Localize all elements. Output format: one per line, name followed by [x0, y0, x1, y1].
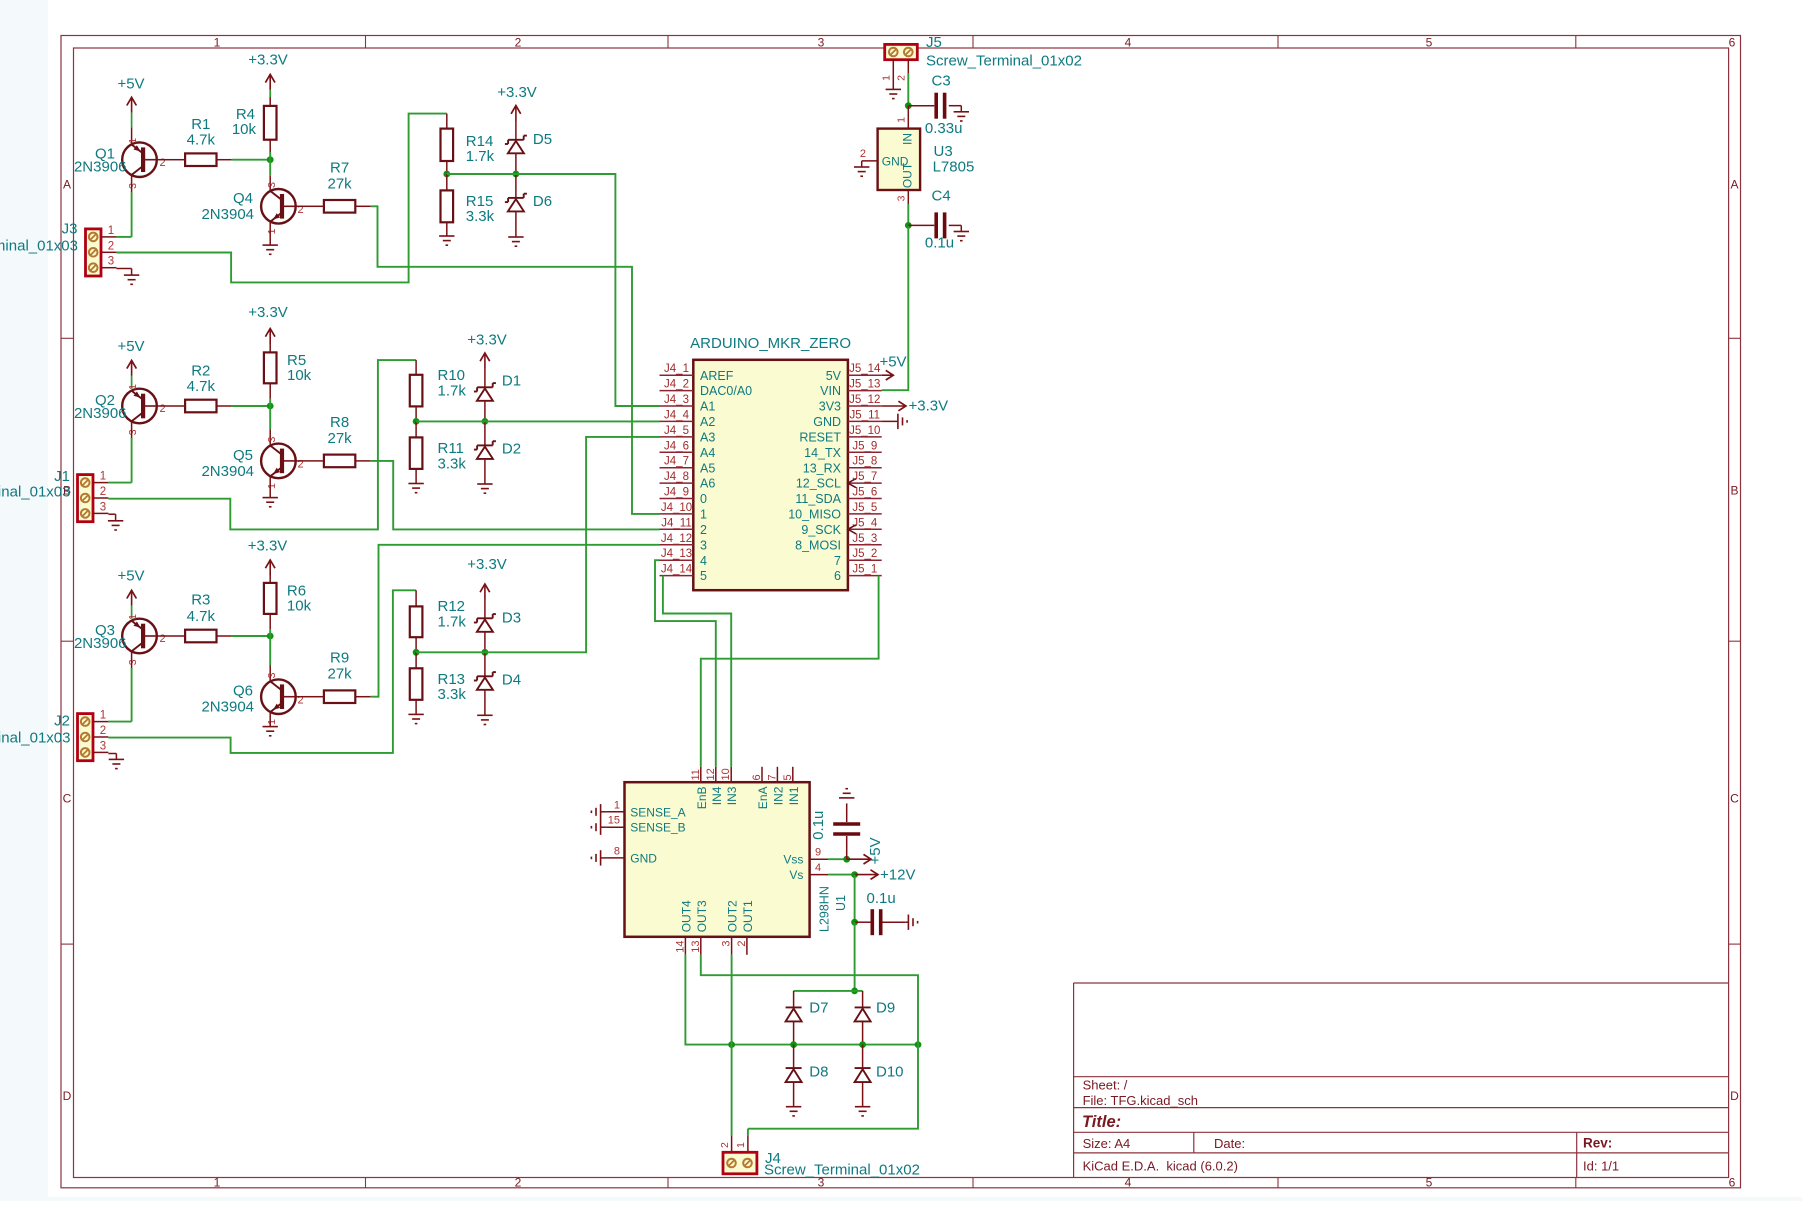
- svg-text:J5_14: J5_14: [849, 363, 881, 375]
- svg-text:3: 3: [818, 35, 825, 49]
- svg-text:R3: R3: [191, 592, 210, 609]
- svg-text:+3.3V: +3.3V: [467, 556, 507, 573]
- svg-text:GND: GND: [630, 851, 657, 865]
- svg-text:0.1u: 0.1u: [810, 811, 827, 840]
- svg-text:D7: D7: [809, 1000, 828, 1017]
- svg-text:3: 3: [266, 437, 278, 443]
- svg-text:OUT: OUT: [901, 162, 915, 188]
- svg-text:EnA: EnA: [756, 787, 770, 810]
- svg-text:C3: C3: [932, 73, 951, 90]
- svg-text:27k: 27k: [328, 666, 353, 683]
- svg-text:Q4: Q4: [233, 190, 253, 207]
- svg-text:Rev:: Rev:: [1583, 1136, 1612, 1151]
- svg-text:3V3: 3V3: [819, 400, 841, 414]
- svg-text:Title:: Title:: [1082, 1113, 1121, 1131]
- svg-text:3: 3: [896, 195, 908, 201]
- svg-text:R2: R2: [191, 362, 210, 379]
- svg-text:13: 13: [690, 941, 702, 953]
- svg-text:1: 1: [127, 614, 139, 620]
- svg-text:J5_11: J5_11: [850, 409, 880, 421]
- svg-text:+5V: +5V: [117, 338, 144, 355]
- svg-text:3: 3: [108, 256, 114, 268]
- svg-text:+3.3V: +3.3V: [909, 398, 949, 415]
- svg-text:3: 3: [266, 182, 278, 188]
- svg-text:2: 2: [515, 35, 522, 49]
- svg-text:VIN: VIN: [820, 384, 841, 398]
- svg-text:+3.3V: +3.3V: [248, 52, 288, 69]
- svg-text:J5_6: J5_6: [852, 487, 877, 499]
- svg-text:J5_12: J5_12: [849, 394, 880, 406]
- svg-text:DAC0/A0: DAC0/A0: [700, 384, 752, 398]
- svg-text:Screw_Terminal_01x03: Screw_Terminal_01x03: [0, 484, 71, 501]
- svg-text:1: 1: [614, 799, 620, 811]
- svg-text:7: 7: [834, 554, 841, 568]
- svg-text:2: 2: [100, 486, 106, 498]
- svg-text:J4_6: J4_6: [664, 440, 689, 452]
- svg-text:6: 6: [834, 569, 841, 583]
- svg-text:4: 4: [815, 862, 821, 874]
- svg-text:J4_3: J4_3: [664, 394, 689, 406]
- svg-text:J4_14: J4_14: [661, 564, 693, 576]
- svg-text:J4_11: J4_11: [661, 517, 691, 529]
- svg-text:6: 6: [1729, 1175, 1736, 1189]
- svg-text:1: 1: [214, 1175, 221, 1189]
- svg-text:J5_4: J5_4: [852, 517, 878, 529]
- svg-text:1: 1: [127, 384, 139, 390]
- svg-text:Sheet: /: Sheet: /: [1083, 1078, 1128, 1093]
- svg-text:27k: 27k: [328, 430, 353, 447]
- svg-text:OUT1: OUT1: [741, 900, 755, 932]
- svg-text:1.7k: 1.7k: [466, 148, 495, 165]
- svg-text:R9: R9: [330, 650, 349, 667]
- svg-text:Screw_Terminal_01x02: Screw_Terminal_01x02: [764, 1162, 920, 1179]
- svg-text:J5_13: J5_13: [849, 379, 880, 391]
- svg-text:+5V: +5V: [879, 354, 906, 371]
- svg-text:A2: A2: [700, 415, 715, 429]
- svg-text:RESET: RESET: [799, 431, 841, 445]
- svg-text:3.3k: 3.3k: [438, 686, 467, 703]
- svg-text:5V: 5V: [826, 369, 842, 383]
- svg-text:0: 0: [700, 492, 707, 506]
- svg-text:J4_5: J4_5: [664, 425, 689, 437]
- svg-text:D4: D4: [502, 672, 521, 689]
- svg-text:5: 5: [700, 569, 707, 583]
- svg-text:IN1: IN1: [787, 786, 801, 805]
- svg-text:27k: 27k: [328, 175, 353, 192]
- svg-text:2N3904: 2N3904: [201, 206, 254, 223]
- svg-text:SENSE_A: SENSE_A: [630, 805, 685, 819]
- svg-text:R1: R1: [191, 116, 210, 133]
- svg-text:D9: D9: [876, 1000, 895, 1017]
- svg-text:2: 2: [700, 523, 707, 537]
- svg-text:D6: D6: [533, 193, 552, 210]
- svg-text:SENSE_B: SENSE_B: [630, 821, 685, 835]
- svg-text:2: 2: [719, 1142, 731, 1148]
- svg-text:J4_1: J4_1: [664, 363, 689, 375]
- svg-text:3.3k: 3.3k: [438, 455, 467, 472]
- svg-text:1: 1: [100, 710, 106, 722]
- svg-text:+5V: +5V: [867, 837, 884, 864]
- svg-text:A3: A3: [700, 431, 715, 445]
- svg-text:14: 14: [674, 941, 686, 953]
- svg-text:0.1u: 0.1u: [925, 234, 954, 251]
- svg-text:5: 5: [1426, 35, 1433, 49]
- svg-text:Screw_Terminal_01x03: Screw_Terminal_01x03: [0, 729, 71, 746]
- svg-text:2N3906: 2N3906: [74, 405, 127, 422]
- svg-text:D2: D2: [502, 441, 521, 458]
- svg-text:+3.3V: +3.3V: [248, 304, 288, 321]
- svg-text:10k: 10k: [287, 597, 312, 614]
- svg-text:J1: J1: [54, 468, 70, 485]
- svg-text:D: D: [1730, 1089, 1739, 1103]
- svg-text:1: 1: [896, 117, 908, 123]
- svg-text:J4_10: J4_10: [661, 502, 692, 514]
- svg-text:9: 9: [815, 847, 821, 859]
- svg-text:IN3: IN3: [725, 786, 739, 805]
- svg-text:A: A: [1730, 178, 1738, 192]
- svg-text:12_SCL: 12_SCL: [796, 477, 841, 491]
- svg-text:Vs: Vs: [789, 868, 803, 882]
- svg-text:A4: A4: [700, 446, 715, 460]
- svg-text:OUT4: OUT4: [679, 900, 693, 932]
- svg-text:1: 1: [100, 471, 106, 483]
- svg-text:1: 1: [108, 225, 114, 237]
- svg-text:6: 6: [1729, 35, 1736, 49]
- svg-text:8_MOSI: 8_MOSI: [795, 538, 841, 552]
- svg-text:2: 2: [860, 148, 866, 160]
- svg-text:3: 3: [100, 740, 106, 752]
- svg-text:D1: D1: [502, 373, 521, 390]
- svg-text:10_MISO: 10_MISO: [788, 508, 841, 522]
- svg-text:J5_3: J5_3: [852, 533, 877, 545]
- svg-text:J4_12: J4_12: [661, 533, 692, 545]
- svg-text:A5: A5: [700, 461, 715, 475]
- svg-text:+3.3V: +3.3V: [467, 331, 507, 348]
- svg-text:9_SCK: 9_SCK: [801, 523, 841, 537]
- svg-text:C4: C4: [932, 188, 951, 205]
- svg-text:J3: J3: [62, 221, 78, 238]
- svg-text:2: 2: [160, 403, 166, 415]
- svg-text:2N3906: 2N3906: [74, 635, 127, 652]
- svg-text:11: 11: [690, 769, 702, 780]
- svg-text:3.3k: 3.3k: [466, 208, 495, 225]
- svg-text:Screw_Terminal_01x03: Screw_Terminal_01x03: [0, 238, 78, 255]
- svg-text:J5_5: J5_5: [852, 502, 877, 514]
- svg-text:1: 1: [700, 508, 707, 522]
- svg-text:Size: A4: Size: A4: [1083, 1136, 1131, 1151]
- svg-text:IN: IN: [901, 133, 915, 145]
- svg-text:15: 15: [608, 815, 620, 827]
- svg-text:U3: U3: [934, 143, 953, 160]
- svg-text:R8: R8: [330, 414, 349, 431]
- svg-text:IN4: IN4: [710, 786, 724, 805]
- svg-text:1.7k: 1.7k: [438, 613, 467, 630]
- svg-text:J5_10: J5_10: [849, 425, 880, 437]
- svg-text:OUT2: OUT2: [726, 900, 740, 932]
- svg-text:11_SDA: 11_SDA: [795, 492, 841, 506]
- svg-text:+3.3V: +3.3V: [497, 84, 537, 101]
- svg-text:3: 3: [721, 941, 733, 947]
- svg-text:5: 5: [782, 774, 794, 780]
- svg-text:4.7k: 4.7k: [187, 608, 216, 625]
- svg-text:Q5: Q5: [233, 447, 253, 464]
- svg-text:2: 2: [100, 725, 106, 737]
- svg-text:File: TFG.kicad_sch: File: TFG.kicad_sch: [1083, 1093, 1198, 1108]
- svg-text:KiCad E.D.A. kicad (6.0.2): KiCad E.D.A. kicad (6.0.2): [1083, 1159, 1238, 1174]
- svg-text:3: 3: [127, 659, 139, 665]
- svg-text:J4_8: J4_8: [664, 471, 689, 483]
- svg-text:D8: D8: [809, 1064, 828, 1081]
- svg-text:1: 1: [127, 138, 139, 144]
- svg-text:L298HN: L298HN: [818, 886, 832, 932]
- svg-text:2N3906: 2N3906: [74, 159, 127, 176]
- svg-text:8: 8: [614, 845, 620, 857]
- svg-text:ARDUINO_MKR_ZERO: ARDUINO_MKR_ZERO: [690, 335, 851, 352]
- svg-text:Date:: Date:: [1214, 1136, 1245, 1151]
- svg-text:14_TX: 14_TX: [804, 446, 841, 460]
- svg-text:U1: U1: [834, 895, 848, 911]
- svg-text:+5V: +5V: [117, 76, 144, 93]
- svg-text:A6: A6: [700, 477, 715, 491]
- svg-text:1.7k: 1.7k: [438, 383, 467, 400]
- svg-text:1: 1: [266, 483, 278, 489]
- svg-text:J4_7: J4_7: [664, 456, 689, 468]
- svg-text:D10: D10: [876, 1064, 904, 1081]
- svg-text:2: 2: [515, 1175, 522, 1189]
- svg-text:J5_1: J5_1: [852, 564, 877, 576]
- svg-text:J4_13: J4_13: [661, 548, 692, 560]
- svg-text:A: A: [63, 178, 71, 192]
- svg-text:3: 3: [127, 429, 139, 435]
- svg-text:3: 3: [127, 183, 139, 189]
- svg-text:R7: R7: [330, 159, 349, 176]
- svg-text:OUT3: OUT3: [695, 900, 709, 932]
- svg-text:5: 5: [1426, 1175, 1433, 1189]
- svg-text:10k: 10k: [232, 121, 257, 138]
- svg-text:2: 2: [108, 240, 114, 252]
- svg-text:J5: J5: [926, 34, 942, 51]
- svg-text:1: 1: [266, 719, 278, 725]
- svg-text:J5_7: J5_7: [852, 471, 877, 483]
- svg-text:GND: GND: [813, 415, 841, 429]
- svg-text:Q6: Q6: [233, 683, 253, 700]
- svg-text:+3.3V: +3.3V: [248, 538, 288, 555]
- svg-text:4: 4: [700, 554, 707, 568]
- svg-text:0.33u: 0.33u: [925, 120, 963, 137]
- svg-text:2: 2: [896, 75, 908, 81]
- svg-text:J5_8: J5_8: [852, 456, 877, 468]
- svg-text:6: 6: [751, 774, 763, 780]
- svg-text:+12V: +12V: [880, 866, 915, 883]
- svg-text:4: 4: [1125, 1175, 1132, 1189]
- svg-text:J4_4: J4_4: [664, 409, 690, 421]
- svg-text:J2: J2: [54, 713, 70, 730]
- svg-text:1: 1: [735, 1142, 747, 1148]
- svg-text:3: 3: [266, 672, 278, 678]
- svg-text:J4_9: J4_9: [664, 487, 689, 499]
- svg-text:10k: 10k: [287, 367, 312, 384]
- svg-text:2N3904: 2N3904: [201, 699, 254, 716]
- svg-text:12: 12: [705, 768, 717, 780]
- svg-text:Screw_Terminal_01x02: Screw_Terminal_01x02: [926, 53, 1082, 70]
- svg-text:4.7k: 4.7k: [187, 378, 216, 395]
- svg-text:L7805: L7805: [933, 159, 975, 176]
- svg-text:J5_2: J5_2: [852, 548, 877, 560]
- svg-text:4: 4: [1125, 35, 1132, 49]
- svg-text:C: C: [63, 792, 72, 806]
- svg-text:C: C: [1730, 792, 1739, 806]
- svg-text:2N3904: 2N3904: [201, 463, 254, 480]
- svg-text:Id: 1/1: Id: 1/1: [1583, 1159, 1619, 1174]
- svg-text:+5V: +5V: [117, 567, 144, 584]
- svg-text:2: 2: [160, 633, 166, 645]
- svg-text:B: B: [1730, 484, 1738, 498]
- svg-text:Vss: Vss: [783, 853, 803, 867]
- svg-text:A1: A1: [700, 400, 715, 414]
- svg-text:D: D: [63, 1089, 72, 1103]
- svg-text:7: 7: [766, 774, 778, 780]
- svg-text:AREF: AREF: [700, 369, 734, 383]
- svg-text:3: 3: [100, 501, 106, 513]
- svg-text:D5: D5: [533, 131, 552, 148]
- svg-text:4.7k: 4.7k: [187, 132, 216, 149]
- svg-text:0.1u: 0.1u: [867, 890, 896, 907]
- svg-text:J5_9: J5_9: [852, 440, 877, 452]
- svg-text:1: 1: [266, 228, 278, 234]
- svg-text:1: 1: [214, 35, 221, 49]
- svg-text:2: 2: [736, 941, 748, 947]
- svg-text:D3: D3: [502, 610, 521, 627]
- svg-text:10: 10: [720, 768, 732, 780]
- svg-text:2: 2: [160, 157, 166, 169]
- svg-text:1: 1: [881, 75, 893, 81]
- svg-text:IN2: IN2: [771, 786, 785, 805]
- svg-text:J4_2: J4_2: [664, 379, 689, 391]
- svg-text:EnB: EnB: [695, 787, 709, 810]
- svg-text:13_RX: 13_RX: [803, 461, 842, 475]
- svg-text:3: 3: [700, 538, 707, 552]
